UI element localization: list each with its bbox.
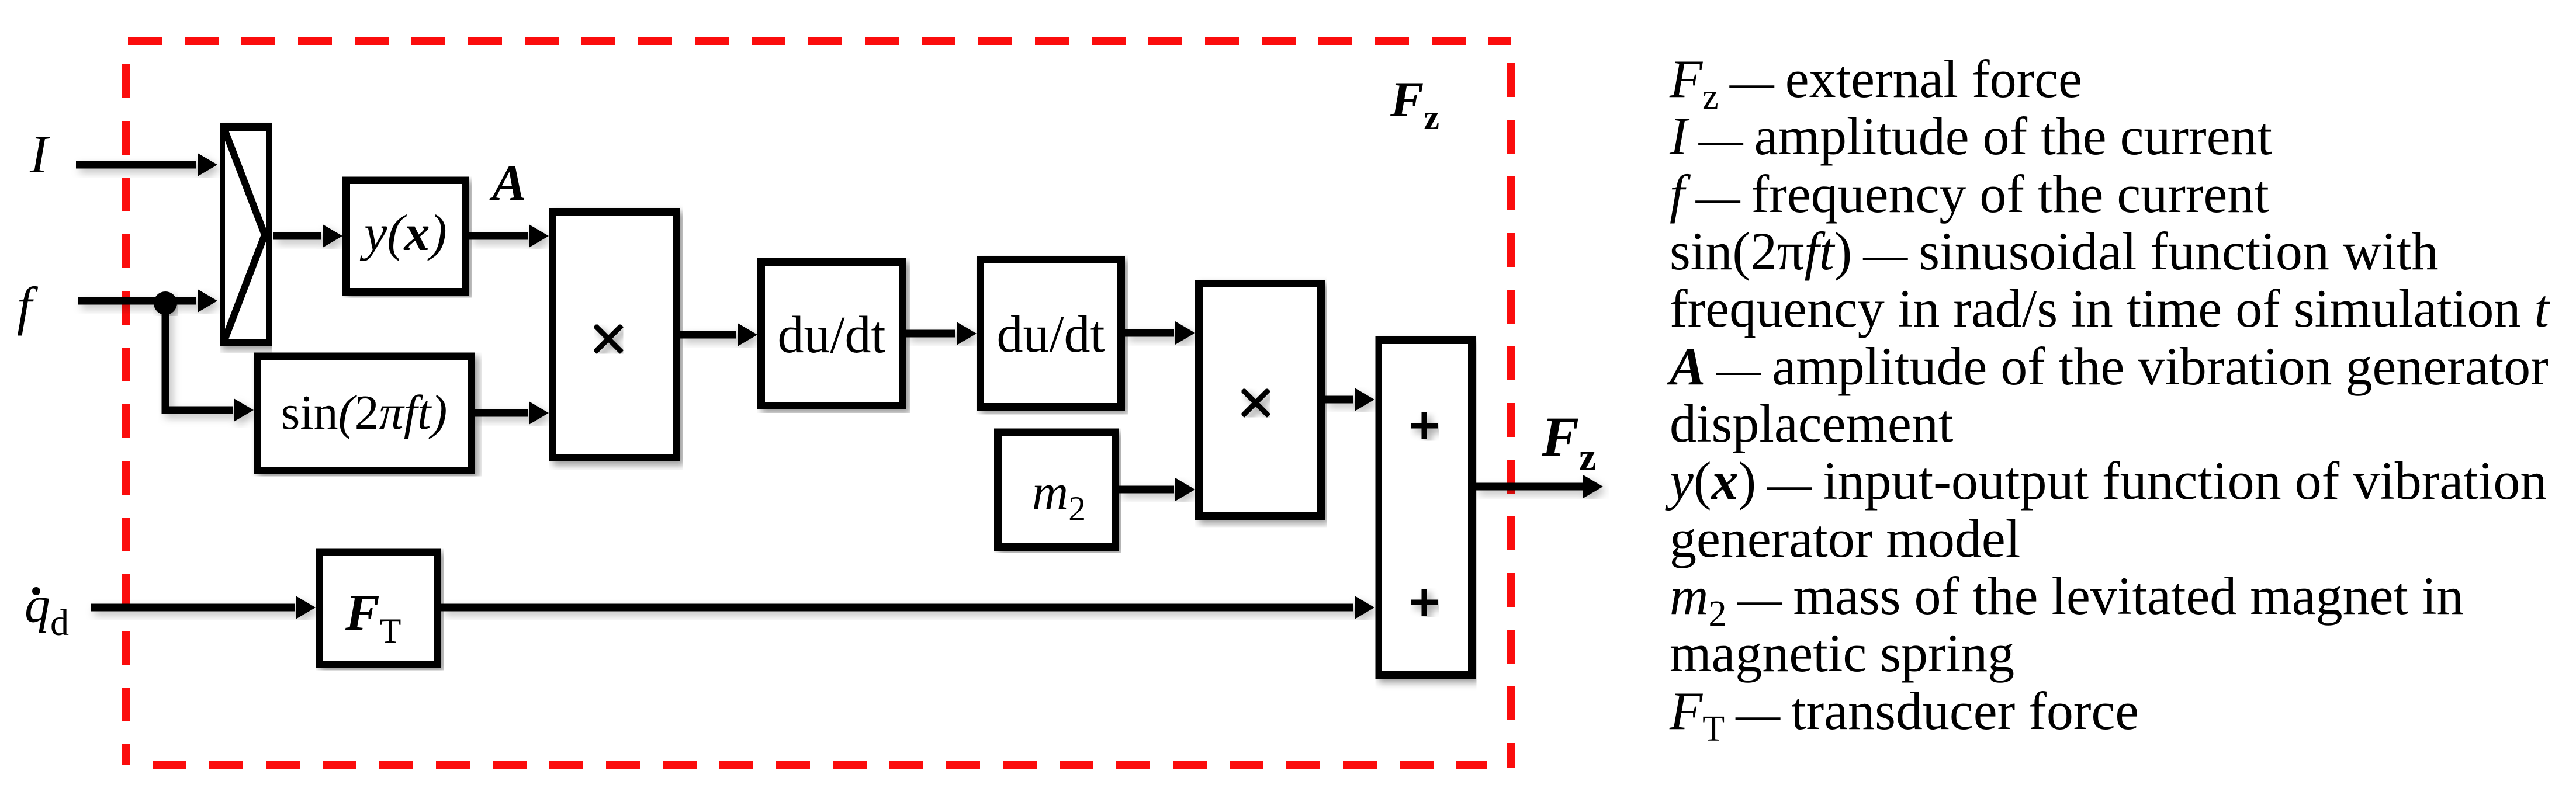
svg-text:du/dt: du/dt: [777, 306, 885, 364]
wire input I: [76, 153, 217, 176]
wire m2 to product 2: [1119, 478, 1195, 501]
block FT (transducer): [320, 552, 438, 665]
svg-text:magnetic spring: magnetic spring: [1670, 623, 2014, 683]
node junction on f wire: [154, 291, 177, 315]
plus sign 2: [1411, 589, 1438, 616]
svg-text:generator model: generator model: [1670, 509, 2020, 568]
wire sin to product 1: [475, 401, 549, 425]
wire product1 to du/dt 1: [680, 323, 757, 346]
wire product2 to sum: [1325, 388, 1374, 411]
svg-text:Fz: Fz: [1541, 405, 1596, 478]
subsystem boundary (red dashed frame): [126, 41, 1511, 768]
wire input f: [78, 289, 217, 313]
multiply sign 1: [595, 325, 622, 352]
svg-text:y(x) — input-output function o: y(x) — input-output function of vibratio…: [1665, 451, 2547, 511]
svg-text:A: A: [489, 155, 527, 211]
block du/dt 1: [761, 262, 903, 406]
svg-text:qd: qd: [25, 577, 69, 643]
multiply sign 2: [1242, 390, 1269, 416]
block sin(2*pi*f*t): [258, 356, 472, 471]
svg-text:A — amplitude of the vibration: A — amplitude of the vibration generator: [1667, 336, 2549, 396]
svg-text:sin(2πft): sin(2πft): [281, 386, 448, 440]
sum block: [1379, 341, 1472, 675]
svg-text:frequency in rad/s in time of: frequency in rad/s in time of simulation…: [1670, 279, 2550, 338]
wire du/dt1 to du/dt2: [906, 322, 977, 345]
svg-text:I: I: [29, 124, 50, 184]
wire FT to sum: [441, 596, 1374, 619]
svg-text:y(x): y(x): [359, 205, 447, 262]
svg-text:I — amplitude of the current: I — amplitude of the current: [1669, 106, 2273, 166]
svg-text:displacement: displacement: [1670, 394, 1954, 453]
block du/dt 2: [981, 260, 1121, 407]
wire output Fz: [1476, 475, 1603, 498]
wire mux to y(x): [273, 224, 342, 248]
svg-text:du/dt: du/dt: [996, 306, 1105, 363]
block m2: [998, 432, 1116, 547]
wire input qd to FT: [91, 596, 316, 619]
svg-text:sin(2πft) — sinusoidal functio: sin(2πft) — sinusoidal function with: [1670, 221, 2439, 281]
mux U1: [221, 127, 270, 343]
wire du/dt2 to product 2: [1125, 321, 1195, 345]
product block 2 (x): [1199, 284, 1321, 516]
svg-text:f: f: [17, 276, 39, 336]
wire branch f to sin block: [162, 301, 254, 422]
svg-text:FT — transducer force: FT — transducer force: [1669, 681, 2139, 749]
svg-text:Fz: Fz: [1390, 71, 1439, 137]
label qd (input): [25, 577, 69, 643]
svg-text:f — frequency of the current: f — frequency of the current: [1670, 164, 2269, 224]
plus sign 1: [1411, 412, 1438, 439]
product block 1 (x): [553, 212, 677, 458]
block y(x): [347, 180, 466, 292]
wire y(x) to product 1: [469, 224, 549, 248]
